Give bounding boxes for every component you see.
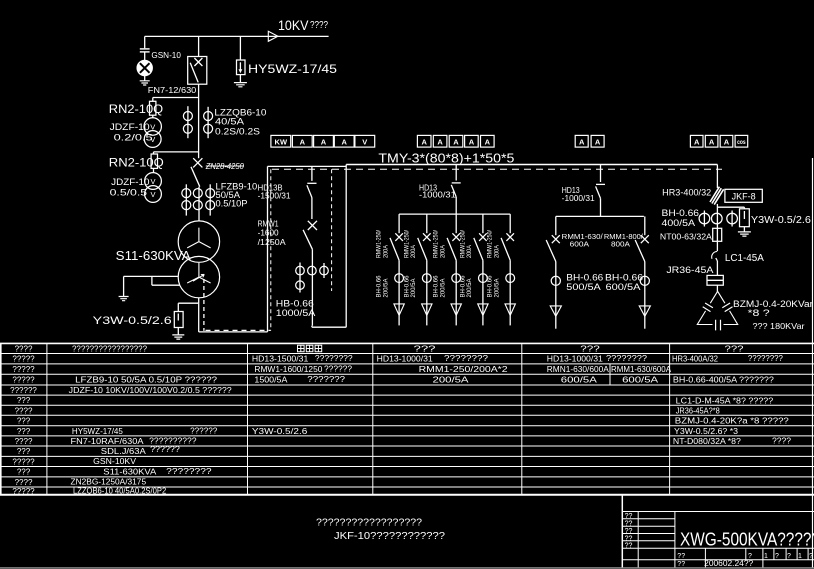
contactor LC1-45A <box>712 252 718 259</box>
knife switch HD13-1000/31 group1 <box>455 165 457 181</box>
svg-text:JKF-8: JKF-8 <box>732 192 756 202</box>
svg-text:200602.24??: 200602.24?? <box>704 559 754 568</box>
knife switch HD13B-1500/31 <box>311 166 313 181</box>
svg-text:HY5WZ-17/45: HY5WZ-17/45 <box>72 427 124 436</box>
svg-text:??????: ?????? <box>150 445 180 454</box>
wire feeder header group1 <box>399 213 510 215</box>
svg-text:Y3W-0.5/2.6: Y3W-0.5/2.6 <box>252 427 308 436</box>
svg-text:?????: ????? <box>12 375 35 384</box>
svg-text:BH-0.66: BH-0.66 <box>662 208 700 218</box>
wire feeder header group2 <box>556 215 644 217</box>
PT JDZF-10 lower (two windings with V) <box>145 173 162 190</box>
svg-text:????: ???? <box>15 437 33 446</box>
svg-text:RMM1-630/600A: RMM1-630/600A <box>611 365 672 374</box>
svg-text:200/5A: 200/5A <box>466 278 473 298</box>
feeder breaker RMM1 #1 <box>555 216 557 235</box>
svg-text:NT00-63/32A: NT00-63/32A <box>660 232 712 242</box>
svg-text:????????: ???????? <box>748 354 784 363</box>
wire trunk to transformer <box>198 187 200 221</box>
svg-text:200/5A: 200/5A <box>439 278 446 298</box>
svg-text:XWG-500KVA?????: XWG-500KVA????? <box>680 529 814 549</box>
svg-text:???: ??? <box>17 427 31 436</box>
svg-text:JDZF-10 10KV/100V/100V0.2/0.5: JDZF-10 10KV/100V/100V0.2/0.5 ?????? <box>69 386 233 395</box>
svg-text:A: A <box>453 137 459 146</box>
svg-text:NT-D080/32A *8?: NT-D080/32A *8? <box>673 437 742 446</box>
feeder breaker RMM1 #2 <box>644 216 646 235</box>
ground below lamp <box>140 81 150 85</box>
wire <box>716 241 718 251</box>
svg-text:200A: 200A <box>493 244 500 258</box>
feeder CT BH-0.66 group2 #1 <box>551 276 560 285</box>
svg-text:???: ??? <box>17 396 31 405</box>
feeder CT BH-0.66 #4 <box>479 274 488 283</box>
feeder breaker RMW1-250 #2 <box>426 214 428 233</box>
svg-text:0.2S/0.2S: 0.2S/0.2S <box>215 126 260 136</box>
arrester Y3W right <box>743 207 745 209</box>
svg-text:?????: ????? <box>12 355 35 364</box>
pseudo glyphs header col3 <box>298 345 305 352</box>
knife switch HD13-1000/31 group2 <box>600 165 602 183</box>
cabinet boundary dashed vertical <box>331 169 333 291</box>
table grid <box>0 342 814 344</box>
arrester Y3W-0.5/2.6 left <box>198 298 200 303</box>
svg-text:10KV: 10KV <box>278 17 309 33</box>
svg-text:RN2-10Q: RN2-10Q <box>109 102 163 116</box>
lamp indicator circle <box>137 60 152 75</box>
svg-text:A: A <box>300 137 306 146</box>
disconnect switch ZN28 <box>193 158 202 167</box>
svg-text:A: A <box>694 137 700 146</box>
svg-text:FN7-12/630: FN7-12/630 <box>148 86 197 95</box>
feeder breaker RMW1-250 #4 <box>482 214 484 233</box>
svg-text:Y3W-0.5/2.6? *3: Y3W-0.5/2.6? *3 <box>674 427 739 436</box>
svg-text:600/5A: 600/5A <box>606 282 641 292</box>
svg-text:600/5A: 600/5A <box>622 375 659 384</box>
svg-text:TMY-3*(80*8)+1*50*5: TMY-3*(80*8)+1*50*5 <box>378 152 514 166</box>
control box JKF-8 <box>725 189 762 202</box>
svg-text:HY5WZ-17/45: HY5WZ-17/45 <box>248 62 337 76</box>
svg-text:200A: 200A <box>466 244 473 258</box>
svg-text:500/5A: 500/5A <box>566 282 601 292</box>
wire <box>716 261 718 275</box>
svg-text:???: ??? <box>17 416 31 425</box>
feeder outgoing arrow #3 <box>451 304 461 316</box>
svg-text:HR3-400/32: HR3-400/32 <box>662 188 711 198</box>
svg-text:??????: ?????? <box>190 426 218 435</box>
feeder breaker RMW1-250 #5 <box>509 214 511 233</box>
feeder CT BH-0.66 #1 <box>395 274 404 283</box>
svg-text:??: ?? <box>625 521 633 528</box>
capacitor GSN-10 divider plates <box>140 48 150 50</box>
svg-text:200A: 200A <box>382 244 389 258</box>
svg-text:?????: ????? <box>12 487 35 496</box>
svg-text:0.5/10P: 0.5/10P <box>216 199 248 209</box>
svg-text:????????: ???????? <box>606 354 648 363</box>
wire trunk from top line to load switch <box>198 36 200 56</box>
svg-text:???: ??? <box>17 468 31 477</box>
cabinet boundary dashed top <box>272 168 722 170</box>
svg-text:???????: ??????? <box>307 375 345 384</box>
wire transformer neutral to ground <box>124 275 179 277</box>
instrument row KW A A A V <box>271 135 291 147</box>
svg-text:Y3W-0.5/2.6: Y3W-0.5/2.6 <box>751 215 811 226</box>
instrument row A A A cos <box>690 135 703 147</box>
svg-text:-1500/31: -1500/31 <box>258 192 292 201</box>
svg-text:?: ? <box>775 553 779 560</box>
feeder outgoing arrow #4 <box>478 304 488 316</box>
svg-text:?: ? <box>787 553 791 560</box>
arrow incoming direction <box>268 31 278 41</box>
svg-text:/1250A: /1250A <box>258 237 286 247</box>
svg-text:1000/5A: 1000/5A <box>276 308 316 318</box>
svg-text:????: ???? <box>15 406 33 415</box>
feeder breaker RMW1-250 #3 <box>455 214 457 233</box>
svg-text:200A: 200A <box>439 244 446 258</box>
svg-text:1: 1 <box>798 553 802 560</box>
wire LV link transformer to bus <box>198 303 200 332</box>
svg-text:JKF-10????????????: JKF-10???????????? <box>334 531 445 542</box>
fuse NT00-63/32A <box>713 228 722 241</box>
svg-text:200/5A: 200/5A <box>433 375 470 384</box>
wire RN2 branch 1 <box>153 97 199 99</box>
svg-text:HD13-1000/31: HD13-1000/31 <box>377 355 434 364</box>
svg-text:SDL.J/63A: SDL.J/63A <box>101 447 147 456</box>
svg-text:A: A <box>485 137 491 146</box>
feeder outgoing arrow #1 <box>394 304 404 316</box>
ground transformer neutral <box>119 297 129 301</box>
feeder CT BH-0.66 #2 <box>422 274 431 283</box>
svg-text:??: ?? <box>625 535 633 542</box>
svg-text:??????????????????: ?????????????????? <box>316 518 422 529</box>
wire trunk below switch <box>198 84 200 158</box>
group2 outgoing arrow #2 <box>639 306 650 316</box>
feeder outgoing arrow #2 <box>422 304 432 316</box>
svg-text:????: ???? <box>15 478 33 487</box>
svg-text:LZZQB6-10 40/5A0.2S/0P2: LZZQB6-10 40/5A0.2S/0P2 <box>73 486 167 495</box>
svg-text:200/5A: 200/5A <box>410 278 417 298</box>
svg-text:?????: ????? <box>12 458 35 467</box>
svg-text:???: ??? <box>725 345 745 354</box>
wire node to arrester branch <box>716 204 718 228</box>
svg-text:0.5/0.5: 0.5/0.5 <box>110 187 148 197</box>
svg-text:JR36-45A?*8: JR36-45A?*8 <box>676 406 721 415</box>
svg-text:RMW1-1600/1250: RMW1-1600/1250 <box>254 365 323 374</box>
svg-text:????: ???? <box>15 345 33 354</box>
svg-text:-1000/31: -1000/31 <box>419 190 456 199</box>
capacitor bank BZMJ delta <box>697 291 737 324</box>
busbar TMY-3*(80*8)+1*50*5 <box>346 164 717 166</box>
svg-text:40/5A: 40/5A <box>215 117 244 127</box>
svg-text:??????: ?????? <box>10 386 37 395</box>
svg-text:???: ??? <box>414 345 437 354</box>
svg-text:200/5A: 200/5A <box>493 278 500 298</box>
svg-text:BZMJ-0.4-20K?a *8 ?????: BZMJ-0.4-20K?a *8 ????? <box>675 417 790 426</box>
svg-text:-1600: -1600 <box>258 228 279 238</box>
svg-text:JDZF-10: JDZF-10 <box>111 177 149 187</box>
fuse RN2-10 upper <box>150 101 156 115</box>
svg-text:JDZF-10: JDZF-10 <box>110 122 150 132</box>
wire <box>716 285 718 291</box>
svg-text:HR3-400A/32: HR3-400A/32 <box>672 355 719 364</box>
breaker RMW1-1600/1250A <box>308 221 317 230</box>
svg-text:A: A <box>321 137 327 146</box>
svg-text:ZN2BG-1250A/3175: ZN2BG-1250A/3175 <box>71 478 147 487</box>
wire capacitor branch drop <box>716 165 718 189</box>
transformer S11-630KVA <box>178 221 219 262</box>
svg-text:???: ??? <box>17 447 31 456</box>
svg-text:?????????????????: ????????????????? <box>72 345 148 354</box>
svg-text:?????: ????? <box>12 365 35 374</box>
CT LFZB9-10 (6 circles, 3 phase) <box>185 184 187 215</box>
wire neutral dashed <box>203 279 205 331</box>
svg-text:1: 1 <box>764 553 768 560</box>
svg-text:LFZB9-10 50/5A 0.5/10P ????: LFZB9-10 50/5A 0.5/10P ?????? <box>75 375 218 384</box>
svg-text:??????: ?????? <box>324 364 353 373</box>
svg-text:200/5A: 200/5A <box>382 278 389 298</box>
PT JDZF-10 upper (two windings with V) <box>144 118 161 135</box>
group2 outgoing arrow #1 <box>550 306 561 316</box>
svg-text:A: A <box>724 137 730 146</box>
svg-text:FN7-10RAF/630A: FN7-10RAF/630A <box>71 437 145 446</box>
sheet right border <box>812 158 814 568</box>
svg-text:HD13-1000/31: HD13-1000/31 <box>547 355 604 364</box>
svg-text:V: V <box>150 190 155 199</box>
svg-text:BZMJ-0.4-20KVar: BZMJ-0.4-20KVar <box>733 299 813 309</box>
svg-text:RMN1-630/600A: RMN1-630/600A <box>547 365 610 374</box>
svg-text:????????: ???????? <box>166 467 212 476</box>
CT LZZQB6-10 (4 circles) <box>187 106 189 138</box>
fuse switch HR3-400/32 (hatched) <box>710 187 724 205</box>
wire 10KV incoming top line <box>145 35 329 37</box>
sheet bottom edge line <box>0 567 814 569</box>
svg-text:A: A <box>421 137 427 146</box>
svg-text:??: ?? <box>625 528 633 535</box>
svg-text:V: V <box>150 177 155 186</box>
svg-text:????????: ???????? <box>315 354 353 363</box>
svg-text:????: ???? <box>310 20 328 31</box>
svg-text:RN2-10Q: RN2-10Q <box>109 156 164 170</box>
svg-text:A: A <box>341 137 347 146</box>
svg-text:????: ???? <box>772 436 792 445</box>
cabinet boundary dashed left vertical <box>270 169 272 330</box>
feeder CT BH-0.66 group2 #2 <box>640 276 649 285</box>
fuse RN2-10 lower <box>151 154 157 168</box>
svg-text:1500/5A: 1500/5A <box>254 375 288 384</box>
wire RN2 branch 2 <box>154 151 199 153</box>
svg-text:HD13-1500/31: HD13-1500/31 <box>252 355 309 364</box>
svg-text:400/5A: 400/5A <box>662 218 696 228</box>
feeder breaker RMW1-250 #1 <box>398 214 400 233</box>
arrester HY5WZ-17/45 <box>239 36 241 60</box>
svg-text:*8 ?: *8 ? <box>748 308 770 318</box>
wire GSN-10 branch <box>144 36 146 48</box>
svg-text:LC1-45A: LC1-45A <box>725 253 764 264</box>
svg-text:??: ?? <box>625 513 633 520</box>
svg-text:-1000/31: -1000/31 <box>562 194 596 203</box>
svg-text:KW: KW <box>275 137 288 146</box>
svg-text:??: ?? <box>677 561 685 568</box>
svg-text:S11-630KVA: S11-630KVA <box>116 248 191 263</box>
svg-text:0.2/0.5: 0.2/0.5 <box>114 133 153 143</box>
svg-text:???: ??? <box>580 345 600 354</box>
svg-text:??: ?? <box>625 543 633 550</box>
load switch FN7-12/630 <box>188 57 207 85</box>
feeder CT BH-0.66 #5 <box>506 274 515 283</box>
svg-text:600/5A: 600/5A <box>561 375 598 384</box>
svg-text:A: A <box>579 137 585 146</box>
thermal relay JR36-45A <box>707 275 723 285</box>
svg-text:V: V <box>362 137 367 146</box>
svg-text:200A: 200A <box>410 244 417 258</box>
svg-text:LC1-D-M-45A *8? ?????: LC1-D-M-45A *8? ????? <box>676 396 774 405</box>
svg-text:S11-630KVA: S11-630KVA <box>103 468 157 477</box>
wire incoming cabinet bottom to bus riser <box>311 326 313 328</box>
svg-text:A: A <box>709 137 715 146</box>
svg-text:A: A <box>469 137 475 146</box>
svg-text:A: A <box>595 137 601 146</box>
svg-text:GSN-10KV: GSN-10KV <box>93 457 137 466</box>
svg-text:????????: ???????? <box>444 354 489 363</box>
instrument row A x5 <box>417 135 431 147</box>
svg-text:??????????: ?????????? <box>149 436 197 445</box>
svg-text:Y3W-0.5/2.6: Y3W-0.5/2.6 <box>93 315 172 327</box>
CT HB-0.66 1000/5A (4 circles) <box>299 263 301 293</box>
feeder CT BH-0.66 #3 <box>452 274 461 283</box>
svg-text:GSN-10: GSN-10 <box>151 51 181 60</box>
svg-text:RMM1-250/200A*2: RMM1-250/200A*2 <box>419 365 509 374</box>
svg-text:??: ?? <box>677 553 685 560</box>
svg-text:cos: cos <box>737 139 746 146</box>
svg-text:600A: 600A <box>570 239 589 248</box>
instrument row A x2 <box>575 135 588 147</box>
title block frame <box>621 495 623 568</box>
svg-text:V: V <box>150 122 155 131</box>
svg-text:800A: 800A <box>611 239 630 248</box>
svg-text:??? 180KVar: ??? 180KVar <box>753 321 805 331</box>
svg-text:BH-0.66-400/5A ???????: BH-0.66-400/5A ??????? <box>673 375 775 384</box>
svg-text:JR36-45A: JR36-45A <box>666 265 713 275</box>
svg-text:A: A <box>437 137 443 146</box>
feeder outgoing arrow #5 <box>505 304 515 316</box>
CT BH-0.66 400/5A (3 circles) <box>703 211 705 227</box>
